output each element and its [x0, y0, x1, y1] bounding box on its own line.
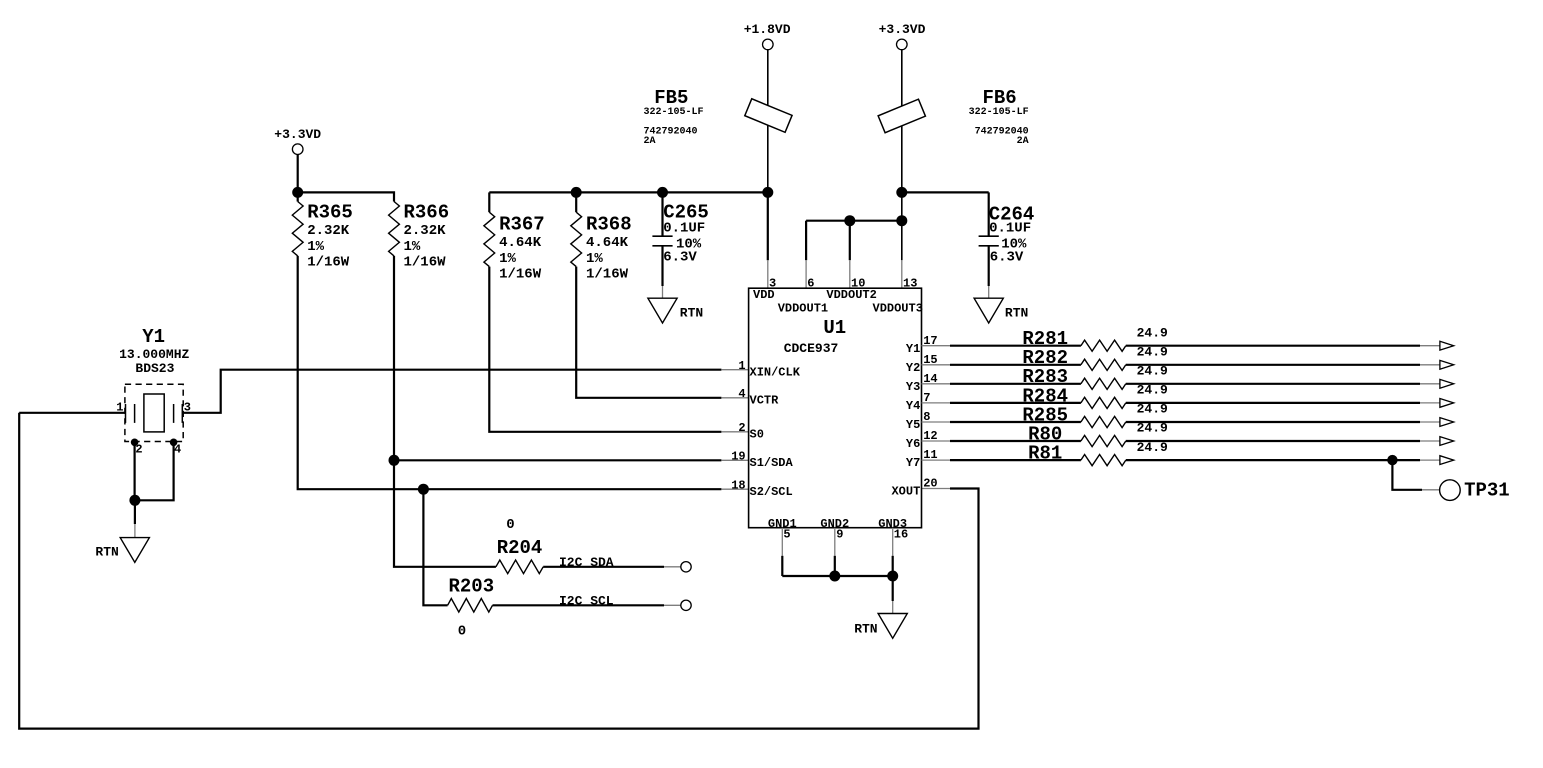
svg-text:S2/SCL: S2/SCL	[750, 485, 793, 499]
capacitor C265 plates	[652, 236, 672, 246]
pin stub output port	[1420, 364, 1440, 366]
svg-text:4.64K: 4.64K	[586, 235, 629, 251]
wire R284 to output port	[1126, 402, 1420, 404]
pin VDDOUT3 (13)	[873, 276, 923, 315]
svg-text:FB5: FB5	[654, 87, 688, 109]
pin GND2 (9)	[820, 517, 849, 541]
svg-text:RTN: RTN	[680, 306, 703, 321]
svg-text:24.9: 24.9	[1137, 440, 1168, 455]
pin stub output port	[1420, 440, 1440, 442]
svg-text:XIN/CLK: XIN/CLK	[750, 366, 801, 380]
svg-text:XOUT: XOUT	[891, 485, 920, 499]
svg-text:CDCE937: CDCE937	[784, 341, 839, 356]
pin stub U1 Y1	[922, 345, 951, 347]
IC U1 CDCE937 clock generator	[749, 288, 922, 528]
pin Y1 (17)	[906, 334, 938, 356]
wire Y1 to R281	[950, 345, 1081, 347]
svg-text:24.9: 24.9	[1137, 345, 1168, 360]
output port arrow	[1440, 399, 1454, 408]
junction VDDOUT bus / pin 10	[844, 215, 855, 226]
svg-text:1%: 1%	[404, 239, 421, 255]
crystal pin 4 dot	[170, 439, 178, 447]
ground RTN (crystal)	[95, 538, 149, 563]
svg-text:2.32K: 2.32K	[307, 223, 350, 239]
resistor R81	[1028, 440, 1168, 466]
svg-text:322-105-LF: 322-105-LF	[969, 107, 1029, 118]
wire ground bus	[782, 575, 892, 577]
wire C264 top lead	[988, 192, 990, 236]
pin stub U1 pin 20 XOUT	[922, 488, 951, 490]
svg-text:BDS23: BDS23	[135, 361, 174, 376]
pin S2/SCL (18)	[731, 479, 793, 500]
wire R203 to I2C_SCL port	[493, 604, 665, 606]
junction 1.8V rail / FB5	[762, 187, 773, 198]
wire R281 to output port	[1126, 345, 1420, 347]
pin stub U1 pin 1	[721, 369, 748, 371]
capacitor C264	[979, 204, 1035, 266]
wire R282 to output port	[1126, 364, 1420, 366]
pin stub ground RTN	[892, 601, 894, 614]
pin stub U1 pin 4	[721, 397, 748, 399]
resistor R282 body	[1081, 359, 1126, 370]
wire Y7 to R81	[950, 459, 1081, 461]
svg-text:1%: 1%	[499, 251, 516, 267]
pin stub U1 Y5	[922, 421, 951, 423]
junction +3.3VD rail / R365	[292, 187, 303, 198]
svg-text:Y1: Y1	[906, 342, 920, 356]
svg-text:0: 0	[458, 623, 466, 639]
net I2C_SDA	[559, 555, 691, 572]
svg-text:RTN: RTN	[854, 622, 877, 637]
wire U1 ground pin lead	[781, 556, 783, 576]
junction Y7 / TP31	[1387, 455, 1397, 465]
resistor R281	[1022, 325, 1168, 351]
output port arrow	[1440, 341, 1454, 350]
svg-text:VDDOUT1: VDDOUT1	[778, 302, 828, 316]
wire rail +3.3VD pullup (R365-R366)	[298, 192, 394, 201]
resistor R285	[1022, 402, 1168, 428]
wire U1 pin 10 lead	[849, 221, 851, 261]
svg-text:S0: S0	[750, 428, 764, 442]
pin VDDOUT2 (10)	[826, 276, 876, 302]
svg-text:5: 5	[783, 527, 790, 541]
output port arrow	[1440, 456, 1454, 465]
wire C265 top lead	[661, 192, 663, 236]
ground RTN (C265)	[648, 298, 703, 323]
pin stub C265 ground	[662, 286, 664, 298]
ground RTN (C264)	[974, 298, 1028, 323]
junction 3.3V rail / FB6	[896, 187, 907, 198]
wire R285 to output port	[1126, 421, 1420, 423]
pin stub U1 pin 13	[901, 260, 903, 288]
svg-text:1/16W: 1/16W	[586, 267, 629, 283]
wire R365 to S2/SCL	[298, 256, 722, 489]
pin stub I2C_SDA port	[664, 566, 681, 568]
junction 1.8V rail / C265	[657, 187, 668, 198]
svg-text:9: 9	[836, 527, 843, 541]
svg-text:I2C_SDA: I2C_SDA	[559, 555, 614, 570]
svg-text:13.000MHZ: 13.000MHZ	[119, 347, 189, 362]
svg-text:18: 18	[731, 479, 745, 493]
svg-text:6.3V: 6.3V	[990, 249, 1024, 265]
resistor R80 body	[1081, 435, 1126, 446]
output port arrow	[1440, 418, 1454, 427]
pin stub crystal ground	[134, 524, 136, 538]
svg-text:VCTR: VCTR	[750, 394, 780, 408]
power symbol +1.8VD	[744, 22, 791, 50]
pin Y3 (14)	[906, 372, 938, 394]
pin stub output port	[1420, 421, 1440, 423]
resistor R203 body	[448, 599, 493, 613]
wire Y6 to R80	[950, 440, 1081, 442]
pin VDD (3)	[753, 276, 776, 302]
pin S0 (2)	[738, 421, 764, 442]
svg-text:RTN: RTN	[95, 545, 118, 560]
pin stub C264 ground	[988, 286, 990, 298]
resistor R366	[389, 201, 450, 270]
resistor R204	[496, 517, 543, 574]
pin stub U1 ground pin	[781, 528, 783, 556]
net I2C_SCL	[559, 594, 691, 611]
wire FB5 rail to U1 VDD	[767, 192, 769, 260]
pin stub I2C_SCL port	[664, 604, 681, 606]
svg-text:6: 6	[807, 276, 814, 290]
svg-text:322-105-LF: 322-105-LF	[644, 107, 704, 118]
capacitor C265	[652, 202, 708, 266]
resistor R282	[1022, 345, 1168, 371]
pin XIN/CLK (1)	[738, 359, 800, 380]
resistor R80	[1028, 421, 1168, 447]
resistor R365 body	[292, 202, 303, 256]
wire U1 ground pin lead	[834, 556, 836, 576]
pin stub U1 Y6	[922, 440, 951, 442]
power symbol +3.3VD (right)	[879, 22, 926, 50]
wire R80 to output port	[1126, 440, 1420, 442]
svg-text:FB6: FB6	[983, 87, 1017, 109]
junction crystal ground	[129, 495, 140, 506]
pin stub U1 pin 6	[805, 260, 807, 288]
svg-text:Y4: Y4	[906, 399, 920, 413]
wire U1 pin 6 lead	[805, 221, 807, 261]
resistor R204 body	[496, 560, 543, 574]
output port arrow	[1440, 379, 1454, 388]
pin stub U1 pin 3	[767, 260, 769, 288]
svg-text:R81: R81	[1028, 443, 1062, 465]
output port arrow	[1440, 437, 1454, 446]
wire R368 top lead	[575, 192, 577, 212]
svg-text:2: 2	[738, 421, 745, 435]
svg-text:2A: 2A	[1017, 136, 1029, 147]
ferrite bead FB6	[878, 87, 1028, 147]
junction S2/SCL	[418, 484, 429, 495]
svg-text:R368: R368	[586, 213, 632, 235]
svg-text:VDDOUT3: VDDOUT3	[873, 302, 923, 316]
resistor R367	[484, 212, 545, 283]
wire crystal pin 4 to ground	[135, 442, 174, 500]
svg-text:4: 4	[738, 387, 745, 401]
resistor R366 body	[389, 202, 400, 256]
svg-text:TP31: TP31	[1464, 480, 1510, 502]
svg-text:2.32K: 2.32K	[404, 223, 447, 239]
resistor R285 body	[1081, 416, 1126, 427]
pin stub output port	[1420, 383, 1440, 385]
pin Y2 (15)	[906, 353, 938, 375]
pin stub U1 pin 10	[849, 260, 851, 288]
wire 1.8V rail (R367-R368-C265-FB5)	[489, 191, 768, 193]
svg-text:I2C_SCL: I2C_SCL	[559, 594, 614, 609]
svg-text:Y6: Y6	[906, 437, 920, 451]
svg-text:R365: R365	[307, 201, 353, 223]
pin Y4 (7)	[906, 391, 931, 413]
pin stub U1 Y4	[922, 402, 951, 404]
wire XOUT feedback loop to crystal	[19, 413, 978, 729]
svg-text:20: 20	[923, 477, 937, 491]
wire +1.8VD through FB5	[767, 50, 769, 193]
svg-text:3: 3	[769, 276, 776, 290]
resistor R365	[292, 201, 353, 270]
pin stub U1 Y2	[922, 364, 951, 366]
svg-text:0: 0	[506, 517, 514, 533]
pin stub U1 Y7	[922, 459, 951, 461]
svg-text:1: 1	[738, 359, 745, 373]
wire +3.3VD power to rail / R365 top	[297, 154, 299, 201]
svg-text:16: 16	[894, 527, 908, 541]
capacitor C264 plates	[979, 236, 999, 246]
pin Y6 (12)	[906, 429, 938, 451]
svg-text:R204: R204	[497, 537, 543, 559]
pin VDDOUT1 (6)	[778, 276, 828, 315]
svg-text:+3.3VD: +3.3VD	[274, 127, 321, 142]
wire VDDOUT bus pins 6-10-13	[806, 220, 902, 222]
wire U1 ground pin lead	[892, 556, 894, 576]
pin stub output port	[1420, 402, 1440, 404]
svg-text:24.9: 24.9	[1137, 364, 1168, 379]
junction 1.8V rail / R368	[571, 187, 582, 198]
pin VCTR (4)	[738, 387, 779, 408]
svg-text:S1/SDA: S1/SDA	[750, 456, 794, 470]
pin stub output port	[1420, 345, 1440, 347]
svg-text:13: 13	[903, 276, 917, 290]
wire R367 to S0	[489, 267, 721, 432]
wire R367 top lead	[488, 192, 490, 212]
svg-text:2A: 2A	[644, 136, 656, 147]
svg-text:+3.3VD: +3.3VD	[879, 22, 926, 37]
svg-text:Y3: Y3	[906, 380, 920, 394]
wire 3.3V rail FB6 to C264	[902, 191, 989, 193]
wire crystal pin 3 to XIN/CLK	[182, 370, 721, 413]
resistor R203	[448, 575, 495, 639]
junction ground bus / GND3	[887, 571, 898, 582]
resistor R368 body	[571, 212, 582, 266]
svg-text:19: 19	[731, 450, 745, 464]
crystal pin 2 dot	[131, 439, 139, 447]
resistor R81 body	[1081, 455, 1126, 466]
pin XOUT (20)	[891, 477, 937, 499]
resistor R367 body	[484, 212, 495, 266]
svg-text:24.9: 24.9	[1137, 325, 1168, 340]
wire R368 to VCTR	[576, 267, 721, 398]
wire +3.3VD through FB6 to U1 pin 13	[901, 50, 903, 261]
ferrite bead FB5	[644, 87, 793, 147]
wire Y4 to R284	[950, 402, 1081, 404]
wire ground bus to RTN	[892, 576, 894, 601]
svg-text:Y1: Y1	[142, 326, 165, 348]
wire R366 to S1/SDA and R204	[394, 256, 496, 567]
svg-text:Y2: Y2	[906, 361, 920, 375]
wire R204 to I2C_SDA port	[543, 566, 664, 568]
wire crystal pin 1 to feedback loop	[19, 412, 125, 414]
pin stub U1 pin 2	[721, 431, 748, 433]
pin stub U1 Y3	[922, 383, 951, 385]
output port arrow	[1440, 360, 1454, 369]
svg-text:6.3V: 6.3V	[663, 249, 697, 265]
wire Y5 to R285	[950, 421, 1081, 423]
wire R283 to output port	[1126, 383, 1420, 385]
pin GND3 (16)	[878, 517, 908, 541]
wire crystal pin 2 to ground	[134, 442, 136, 500]
pin GND1 (5)	[768, 517, 797, 541]
resistor R368	[571, 212, 632, 283]
pin stub U1 ground pin	[834, 528, 836, 556]
junction VDDOUT bus / pin 13	[896, 215, 907, 226]
svg-text:0.1UF: 0.1UF	[989, 220, 1031, 236]
test point TP31	[1440, 480, 1510, 502]
svg-text:Y7: Y7	[906, 456, 920, 470]
svg-text:RTN: RTN	[1005, 306, 1028, 321]
power symbol +3.3VD (left)	[274, 127, 321, 155]
svg-text:0.1UF: 0.1UF	[663, 220, 705, 236]
svg-text:1/16W: 1/16W	[307, 255, 350, 271]
pin stub U1 pin 19	[721, 459, 748, 461]
pin stub TP31	[1422, 489, 1440, 491]
pin S1/SDA (19)	[731, 450, 793, 471]
pin stub U1 pin 18	[721, 488, 748, 490]
svg-text:1/16W: 1/16W	[404, 255, 447, 271]
wire Y2 to R282	[950, 364, 1081, 366]
pin Y5 (8)	[906, 410, 931, 432]
ground RTN (U1)	[854, 614, 907, 639]
junction S1/SDA	[389, 455, 400, 466]
svg-text:10: 10	[851, 276, 865, 290]
wire C264 bottom lead	[988, 246, 990, 286]
resistor R284	[1022, 383, 1168, 409]
svg-text:R203: R203	[449, 575, 495, 597]
svg-text:1%: 1%	[307, 239, 324, 255]
wire crystal ground lead	[134, 500, 136, 524]
wire S2/SCL branch to R203	[423, 489, 447, 605]
resistor R284 body	[1081, 397, 1126, 408]
crystal Y1	[116, 326, 191, 457]
wire R81 to output port	[1126, 459, 1420, 461]
svg-text:R366: R366	[404, 201, 450, 223]
wire Y3 to R283	[950, 383, 1081, 385]
svg-text:24.9: 24.9	[1137, 383, 1168, 398]
pin stub U1 ground pin	[892, 528, 894, 556]
svg-text:1/16W: 1/16W	[499, 267, 542, 283]
wire Y7 to TP31	[1392, 460, 1422, 490]
svg-text:+1.8VD: +1.8VD	[744, 22, 791, 37]
pin Y7 (11)	[906, 448, 938, 470]
pin stub output port	[1420, 459, 1440, 461]
svg-text:24.9: 24.9	[1137, 402, 1168, 417]
svg-text:U1: U1	[823, 317, 846, 339]
svg-text:1%: 1%	[586, 251, 603, 267]
resistor R283	[1022, 364, 1168, 390]
svg-text:R367: R367	[499, 213, 545, 235]
svg-text:24.9: 24.9	[1137, 421, 1168, 436]
resistor R283 body	[1081, 378, 1126, 389]
svg-text:4.64K: 4.64K	[499, 235, 542, 251]
junction ground bus / GND2	[829, 571, 840, 582]
svg-text:Y5: Y5	[906, 418, 920, 432]
wire S1/SDA to U1	[394, 459, 721, 461]
resistor R281 body	[1081, 340, 1126, 351]
wire C265 bottom lead	[661, 246, 663, 286]
